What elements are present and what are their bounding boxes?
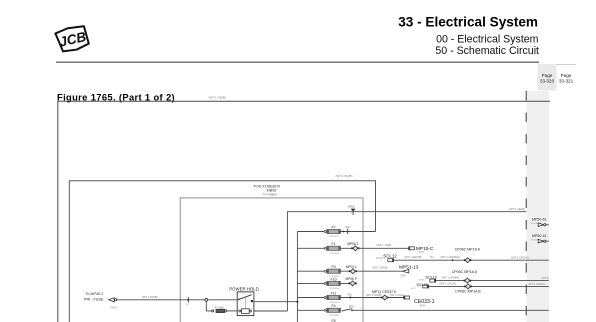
svg-text:F7: F7 xyxy=(331,225,335,229)
svg-text:(WT-1 GEN/B): (WT-1 GEN/B) xyxy=(404,255,421,259)
svg-text:CP06C MP1A K: CP06C MP1A K xyxy=(455,247,481,251)
node CP06C MP1A K xyxy=(455,247,481,262)
svg-text:5H721: 5H721 xyxy=(376,257,384,260)
svg-text:33-321: 33-321 xyxy=(559,79,574,84)
svg-text:(WT-1 OH1): (WT-1 OH1) xyxy=(390,293,405,297)
fuse feed bus xyxy=(296,232,298,322)
figure border xyxy=(58,101,550,322)
node MP06 J xyxy=(347,242,359,251)
fuse F4 xyxy=(324,304,340,317)
JCB logo xyxy=(55,24,90,53)
svg-text:W9F1: W9F1 xyxy=(111,307,118,310)
svg-text:7/7/P0621: 7/7/P0621 xyxy=(329,236,340,238)
connector MP15-C xyxy=(408,246,434,254)
svg-text:(WT-1 GE/B): (WT-1 GE/B) xyxy=(209,96,226,100)
fuse F10 xyxy=(324,277,340,290)
inner grey bus wire xyxy=(180,198,363,322)
wire relay switch output to bus xyxy=(254,301,298,303)
svg-text:7V7/H8667: 7V7/H8667 xyxy=(262,192,277,196)
svg-text:5H72B: 5H72B xyxy=(531,239,538,241)
svg-text:7/7/P0626: 7/7/P0626 xyxy=(329,315,340,317)
svg-text:50 - Schematic Circuit: 50 - Schematic Circuit xyxy=(435,45,539,57)
fuse F4 row wire xyxy=(297,309,324,311)
fuse F10 row wire xyxy=(297,282,349,284)
svg-text:W001: W001 xyxy=(348,205,355,209)
connector CE033-1 xyxy=(403,296,434,308)
svg-text:F4: F4 xyxy=(331,304,335,308)
connector SCL11 xyxy=(411,283,429,290)
junction W1 xyxy=(186,297,190,306)
svg-text:5H71: 5H71 xyxy=(411,288,417,290)
svg-text:blu: blu xyxy=(430,255,434,259)
wire F3 row to MP51-13 xyxy=(355,270,402,272)
fuse F11 row wire xyxy=(297,297,382,299)
node MP06 P xyxy=(346,277,357,286)
wire F11 to CE033 xyxy=(387,297,403,299)
wire PRI-FUSE to node xyxy=(117,299,205,301)
svg-text:(WT-1 GEN/G): (WT-1 GEN/G) xyxy=(511,255,529,259)
wire SCL12 row K xyxy=(394,259,549,261)
svg-text:(WT-1 BU/B): (WT-1 BU/B) xyxy=(336,174,353,178)
wire row B xyxy=(429,285,549,287)
svg-text:(WT-1 OH/B): (WT-1 OH/B) xyxy=(366,293,382,297)
tick W1 on F7 wire xyxy=(346,226,352,234)
svg-text:(WT-1 GN/G2): (WT-1 GN/G2) xyxy=(529,283,545,286)
svg-text:33 - Electrical System: 33 - Electrical System xyxy=(398,15,538,30)
svg-text:W05: W05 xyxy=(401,274,407,277)
svg-text:(WT-1 YE/B): (WT-1 YE/B) xyxy=(376,243,391,247)
svg-text:To MP40-2: To MP40-2 xyxy=(85,292,103,296)
svg-text:7/7/P0624: 7/7/P0624 xyxy=(329,288,340,290)
node diamond F11 xyxy=(381,295,388,300)
wire relay coil output xyxy=(254,310,288,312)
svg-text:(WT-1 CH/LA): (WT-1 CH/LA) xyxy=(439,281,456,285)
svg-text:W51: W51 xyxy=(349,306,355,309)
svg-text:F1: F1 xyxy=(331,242,335,246)
wire row A xyxy=(436,280,549,282)
connector MP60-61 xyxy=(531,234,549,243)
svg-text:F51: F51 xyxy=(348,293,353,296)
fuse F7 row wire xyxy=(297,231,375,233)
connector SCL12 xyxy=(376,254,397,262)
node circle xyxy=(205,298,208,301)
svg-text:SCL12: SCL12 xyxy=(383,254,397,259)
page tab 33-321 xyxy=(557,65,577,84)
wire row F4 to page edge xyxy=(352,309,549,311)
wire F1 row to MP15-C xyxy=(358,247,409,249)
connector MP51-13 xyxy=(399,265,419,278)
svg-text:MP50-61: MP50-61 xyxy=(532,218,547,222)
svg-text:Figure 1765. (Part 1 of 2): Figure 1765. (Part 1 of 2) xyxy=(57,91,175,102)
svg-text:5H70: 5H70 xyxy=(419,279,425,281)
fuse F-1 50A xyxy=(212,307,227,313)
connector SCL10 xyxy=(419,276,437,283)
junction dot K row xyxy=(452,259,454,261)
svg-text:POWER HOLD: POWER HOLD xyxy=(229,286,258,291)
svg-text:5H52: 5H52 xyxy=(420,304,426,307)
svg-text:00 - Electrical System: 00 - Electrical System xyxy=(436,34,539,46)
svg-text:PRI - FUSE: PRI - FUSE xyxy=(84,298,104,302)
header rule xyxy=(56,61,539,63)
wire node to relay switch xyxy=(208,299,238,301)
connector PRI-FUSE xyxy=(109,298,118,310)
junction bus switch xyxy=(296,301,298,303)
svg-text:MP06 P: MP06 P xyxy=(346,277,357,281)
svg-text:W1: W1 xyxy=(186,304,190,306)
fuse F1 row wire xyxy=(297,247,352,249)
page-boundary dashed line xyxy=(525,91,527,322)
svg-text:F10: F10 xyxy=(330,277,336,281)
svg-text:MP06 J: MP06 J xyxy=(347,242,358,246)
wire node branch down to relay coil fuse xyxy=(206,301,211,311)
relay feed wire to page edge xyxy=(287,212,526,311)
svg-text:F11: F11 xyxy=(331,291,337,295)
svg-text:Page: Page xyxy=(542,73,553,78)
fuse F3 xyxy=(324,265,340,278)
splice W001 xyxy=(348,205,356,215)
svg-text:7/7/P0622: 7/7/P0622 xyxy=(329,253,340,255)
node MP01 L xyxy=(346,265,357,274)
svg-text:(WT-1 GE/B): (WT-1 GE/B) xyxy=(509,207,525,211)
svg-text:(WT-1 GEN/BH): (WT-1 GEN/BH) xyxy=(440,255,459,259)
POD fusebox MB06 outline wire xyxy=(69,181,375,322)
svg-text:(WT-1 KE/B): (WT-1 KE/B) xyxy=(372,265,387,269)
svg-text:CP06C MP1A A: CP06C MP1A A xyxy=(452,270,478,274)
svg-text:(WT-1 OR/B): (WT-1 OR/B) xyxy=(142,295,158,299)
fuse F11 xyxy=(324,291,340,304)
svg-text:5H72: 5H72 xyxy=(419,251,425,254)
relay POWER HOLD xyxy=(229,286,258,315)
page tab 33-320 xyxy=(538,64,557,91)
svg-text:W17: W17 xyxy=(346,226,352,229)
switch link after F4 xyxy=(342,306,355,311)
svg-text:F-1 50A: F-1 50A xyxy=(215,307,224,310)
svg-text:(WT-1 GN/BH): (WT-1 GN/BH) xyxy=(442,276,460,280)
svg-text:Page: Page xyxy=(561,73,572,78)
svg-text:5H72A: 5H72A xyxy=(531,222,538,225)
node CP06C MP1A A xyxy=(452,270,478,283)
connector MP50-61 xyxy=(531,218,549,227)
junction F51 xyxy=(348,293,353,298)
junction after F7 xyxy=(343,231,345,233)
svg-text:CP06C MP1A B: CP06C MP1A B xyxy=(455,290,481,294)
fuse F7 xyxy=(324,225,340,238)
svg-text:MP01 L: MP01 L xyxy=(346,265,357,269)
svg-text:F3: F3 xyxy=(331,265,335,269)
node CP06C MP1A B xyxy=(455,284,481,294)
wire fuse to relay coil xyxy=(227,310,237,312)
fuse F3 row wire xyxy=(297,270,350,272)
svg-text:(WT-1): (WT-1) xyxy=(542,277,550,280)
svg-text:MP60-61: MP60-61 xyxy=(532,234,547,238)
svg-text:33-320: 33-320 xyxy=(540,79,555,84)
page-boundary grey band xyxy=(527,91,549,322)
fuse F1 xyxy=(324,242,340,255)
